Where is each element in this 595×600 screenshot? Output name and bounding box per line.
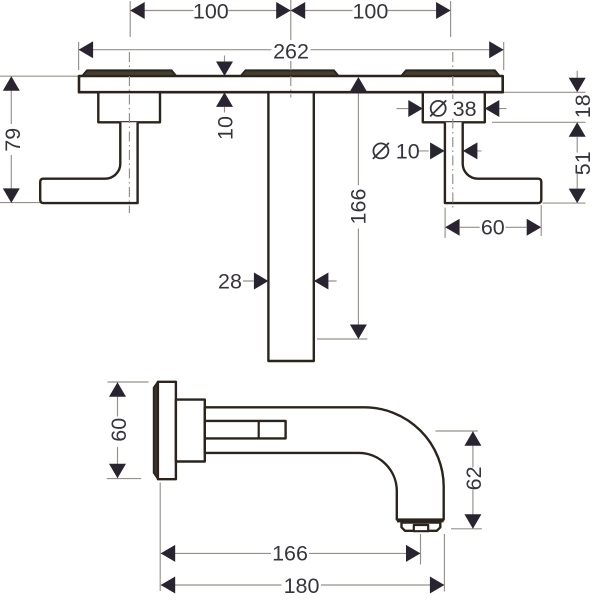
- svg-text:100: 100: [193, 0, 229, 23]
- svg-text:60: 60: [481, 216, 505, 240]
- svg-text:10: 10: [214, 116, 238, 140]
- svg-text:100: 100: [352, 0, 388, 23]
- svg-text:10: 10: [396, 139, 420, 163]
- svg-text:51: 51: [571, 151, 595, 175]
- svg-text:79: 79: [1, 128, 25, 152]
- svg-text:38: 38: [453, 97, 477, 121]
- svg-text:180: 180: [284, 574, 320, 598]
- svg-text:28: 28: [218, 269, 242, 293]
- svg-text:166: 166: [272, 542, 308, 566]
- svg-text:18: 18: [571, 94, 595, 118]
- svg-text:60: 60: [107, 418, 131, 442]
- svg-text:262: 262: [273, 40, 309, 64]
- svg-text:62: 62: [462, 466, 486, 490]
- svg-text:166: 166: [347, 189, 371, 225]
